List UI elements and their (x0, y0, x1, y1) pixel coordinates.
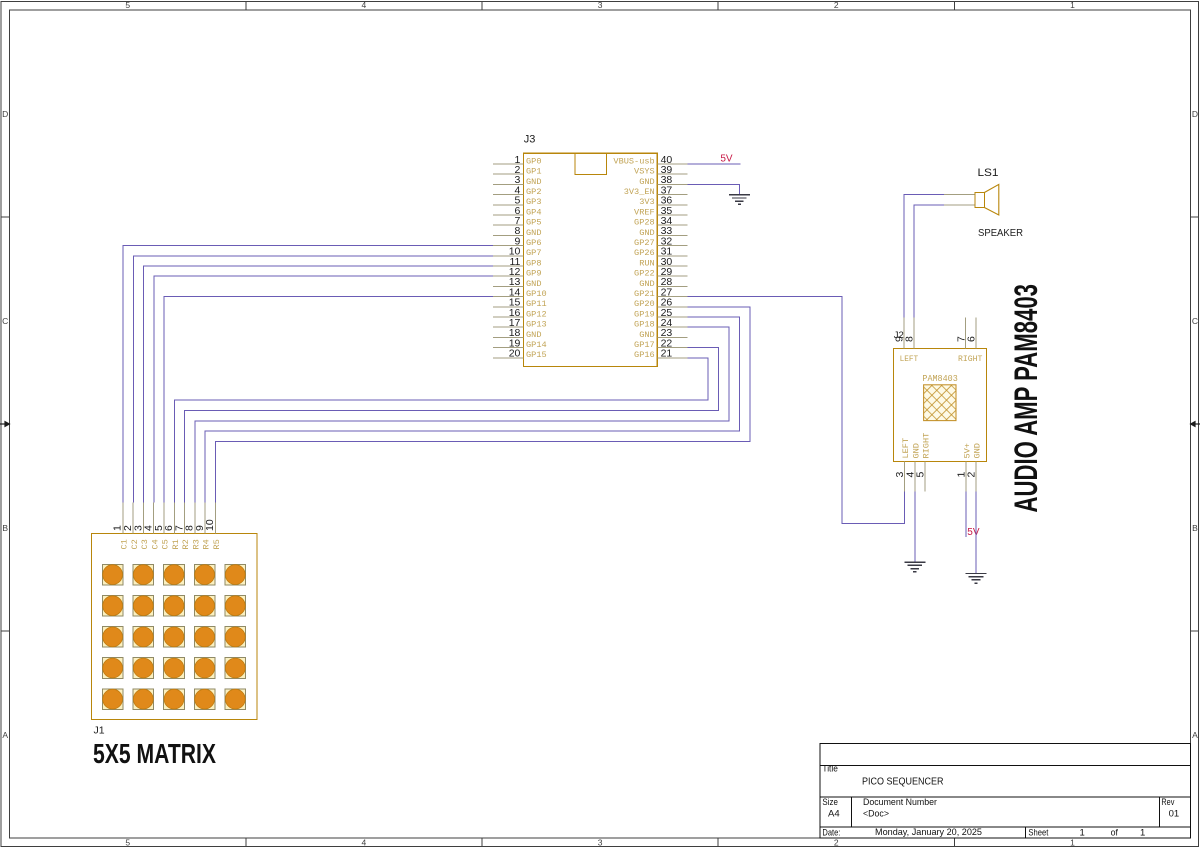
J2 pin 4 GND (904, 443, 921, 491)
svg-text:5: 5 (914, 472, 926, 478)
J1 pin 2 C2 (122, 502, 140, 549)
svg-text:C2: C2 (130, 539, 140, 549)
svg-text:C4: C4 (150, 539, 160, 549)
wire pin38 to ground (688, 184, 740, 194)
svg-text:5V: 5V (720, 153, 733, 164)
svg-text:1: 1 (1070, 837, 1075, 847)
svg-text:20: 20 (509, 348, 521, 360)
svg-text:C: C (1192, 316, 1198, 326)
svg-text:GP28: GP28 (634, 218, 655, 228)
svg-text:GND: GND (526, 177, 541, 187)
svg-text:GP26: GP26 (634, 248, 655, 258)
svg-text:R1: R1 (171, 539, 181, 549)
svg-text:01: 01 (1169, 808, 1180, 819)
wire amp pin9 to speaker top (904, 195, 944, 318)
svg-text:GND: GND (639, 177, 654, 187)
svg-text:Title: Title (822, 764, 838, 774)
svg-text:GND: GND (911, 443, 921, 458)
wire R3 to pico (195, 327, 729, 502)
J3 pin 38 GND (639, 174, 687, 187)
J3 pin 18 GND (493, 327, 542, 340)
svg-text:GND: GND (526, 279, 541, 289)
J3 pin 21 GP16 (634, 348, 688, 361)
svg-text:VREF: VREF (634, 207, 655, 217)
svg-text:GP11: GP11 (526, 299, 547, 309)
wire GP21 pin27 to amp LEFT input (688, 297, 905, 524)
wire 5V pin40 (688, 163, 741, 165)
svg-text:PAM8403: PAM8403 (922, 374, 957, 384)
svg-text:A4: A4 (828, 808, 840, 819)
svg-text:4: 4 (362, 0, 367, 10)
svg-text:6: 6 (966, 336, 978, 342)
svg-text:3V3: 3V3 (639, 197, 654, 207)
svg-text:GP27: GP27 (634, 238, 655, 248)
J3 pin 15 GP11 (493, 297, 547, 310)
J1 pin 9 R4 (194, 502, 212, 549)
svg-text:GP14: GP14 (526, 340, 547, 350)
svg-text:GP2: GP2 (526, 187, 541, 197)
svg-text:R4: R4 (202, 539, 212, 549)
svg-text:1: 1 (1080, 827, 1085, 838)
svg-text:A: A (1192, 730, 1198, 740)
J1 pin 6 R1 (163, 502, 181, 549)
svg-text:GND: GND (526, 330, 541, 340)
J3 pin 2 GP1 (493, 164, 542, 177)
J3 pin 28 GND (639, 276, 687, 289)
svg-text:GP9: GP9 (526, 269, 541, 279)
svg-text:GND: GND (639, 279, 654, 289)
J3 pin 5 GP3 (493, 195, 542, 208)
svg-text:GP5: GP5 (526, 218, 541, 228)
svg-text:5V: 5V (967, 527, 980, 538)
J2 pin 6 (966, 318, 978, 349)
J3 pin 12 GP9 (493, 266, 542, 279)
J3 pin 24 GP18 (634, 317, 688, 330)
svg-text:GND: GND (639, 228, 654, 238)
J3 pin 9 GP6 (493, 235, 542, 248)
speaker LS1 (944, 184, 999, 215)
J1 pin 1 C1 (112, 502, 130, 549)
wire amp pin8 to speaker bottom (914, 205, 944, 318)
svg-text:LEFT: LEFT (901, 438, 911, 459)
J3 pin 7 GP5 (493, 215, 542, 228)
svg-text:GP10: GP10 (526, 289, 547, 299)
svg-text:GP0: GP0 (526, 156, 541, 166)
svg-text:GP8: GP8 (526, 258, 541, 268)
wire amp pin1 5V (965, 491, 967, 537)
J3 pin 29 GP22 (634, 266, 688, 279)
J3 pin 39 VSYS (634, 164, 688, 177)
svg-text:J3: J3 (524, 134, 536, 146)
svg-text:LEFT: LEFT (900, 354, 919, 364)
svg-text:J1: J1 (94, 725, 105, 737)
svg-text:GP20: GP20 (634, 299, 655, 309)
J2 pin 8 (904, 318, 916, 349)
J2 pin 9 (894, 318, 906, 349)
svg-text:SPEAKER: SPEAKER (978, 227, 1023, 239)
svg-text:PICO SEQUENCER: PICO SEQUENCER (862, 777, 944, 788)
wire C3 to GP8 (144, 266, 493, 502)
svg-text:8: 8 (904, 336, 916, 342)
svg-text:LS1: LS1 (978, 167, 999, 179)
svg-text:C3: C3 (140, 539, 150, 549)
J2 pin 5 RIGHT (914, 433, 931, 492)
J3 pin 16 GP12 (493, 307, 547, 320)
svg-text:GP6: GP6 (526, 238, 541, 248)
J3 pin 23 GND (639, 327, 687, 340)
J3 pin 36 3V3 (639, 195, 687, 208)
J3 pin 31 GP26 (634, 246, 688, 259)
svg-text:5: 5 (125, 837, 130, 847)
svg-text:Size: Size (822, 797, 838, 807)
J3 pin 25 GP19 (634, 307, 688, 320)
J3 pin 32 GP27 (634, 235, 688, 248)
svg-text:GP12: GP12 (526, 309, 547, 319)
J2 pin 1 5V+ (955, 443, 972, 491)
svg-text:GP19: GP19 (634, 309, 655, 319)
svg-text:Rev: Rev (1161, 797, 1174, 807)
J3 pin 34 GP28 (634, 215, 688, 228)
J1 pin 10 R5 (204, 502, 222, 549)
svg-text:GP15: GP15 (526, 350, 547, 360)
svg-text:GND: GND (526, 228, 541, 238)
J3 pin 33 GND (639, 225, 687, 238)
svg-text:21: 21 (661, 348, 673, 360)
svg-text:2: 2 (834, 0, 839, 10)
svg-text:GND: GND (973, 443, 983, 458)
ground symbol near pico (729, 195, 750, 205)
svg-text:AUDIO AMP PAM8403: AUDIO AMP PAM8403 (1008, 284, 1044, 513)
svg-text:C: C (2, 316, 8, 326)
svg-text:D: D (1192, 109, 1198, 119)
svg-text:2: 2 (834, 837, 839, 847)
svg-text:<Doc>: <Doc> (863, 809, 889, 820)
svg-text:A: A (2, 730, 8, 740)
wire amp pin4 to ground (914, 491, 916, 561)
J3 pin 13 GND (493, 276, 542, 289)
svg-text:GP1: GP1 (526, 167, 541, 177)
svg-text:GP13: GP13 (526, 320, 547, 330)
svg-text:Monday, January 20, 2025: Monday, January 20, 2025 (875, 827, 982, 838)
svg-text:GP4: GP4 (526, 207, 541, 217)
wire amp pin2 to ground (975, 491, 977, 573)
connector J3 Raspberry Pi Pico body (523, 134, 657, 367)
J3 pin 26 GP20 (634, 297, 688, 310)
svg-text:GP18: GP18 (634, 320, 655, 330)
wire C2 to GP7 (133, 256, 493, 503)
ground symbol amp pin2 (966, 574, 987, 584)
J3 pin 20 GP15 (493, 348, 547, 361)
J3 pin 27 GP21 (634, 286, 688, 299)
svg-text:5X5 MATRIX: 5X5 MATRIX (93, 738, 216, 769)
J2 crosshatch block (924, 385, 956, 421)
svg-text:GND: GND (639, 330, 654, 340)
svg-text:B: B (2, 523, 8, 533)
J3 pin 11 GP8 (493, 256, 542, 269)
J3 pin 14 GP10 (493, 286, 547, 299)
J3 pin 10 GP7 (493, 246, 542, 259)
J1 LED pad grid (102, 564, 245, 709)
svg-text:GP21: GP21 (634, 289, 655, 299)
svg-text:RIGHT: RIGHT (958, 354, 982, 364)
svg-text:C1: C1 (120, 539, 130, 549)
svg-text:VSYS: VSYS (634, 167, 655, 177)
ground symbol amp pin4 (904, 562, 925, 572)
J3 pin 17 GP13 (493, 317, 547, 330)
svg-text:GP22: GP22 (634, 269, 655, 279)
svg-text:R5: R5 (212, 539, 222, 549)
svg-text:2: 2 (966, 472, 978, 478)
svg-text:3: 3 (598, 0, 603, 10)
wire R2 to pico (185, 348, 719, 503)
J3 pin 22 GP17 (634, 337, 688, 350)
svg-text:D: D (2, 109, 8, 119)
connector J1 5x5 matrix body (91, 534, 257, 720)
svg-text:5V+: 5V+ (962, 443, 972, 458)
J2 pin 2 GND (966, 443, 983, 491)
J2 pin 7 (955, 318, 967, 349)
J3 pin 8 GND (493, 225, 542, 238)
svg-text:R2: R2 (181, 539, 191, 549)
svg-text:Document Number: Document Number (863, 797, 937, 807)
J1 pin 5 C5 (153, 502, 171, 549)
svg-text:VBUS-usb: VBUS-usb (613, 156, 654, 166)
wire R4 to pico (205, 317, 739, 502)
svg-text:GP3: GP3 (526, 197, 541, 207)
J2 pin 3 LEFT (894, 438, 911, 492)
svg-text:5: 5 (125, 0, 130, 10)
frame mid arrow left (0, 421, 1200, 428)
svg-text:B: B (1192, 523, 1198, 533)
title block (820, 743, 1191, 838)
svg-text:GP7: GP7 (526, 248, 541, 258)
wire R5 to pico (215, 307, 750, 503)
J3 pin 30 RUN (639, 256, 687, 269)
J1 pin 7 R2 (173, 502, 191, 549)
wire C5 to GP10 (164, 297, 493, 503)
svg-text:1: 1 (1140, 827, 1145, 838)
svg-text:10: 10 (204, 519, 216, 531)
svg-text:3V3_EN: 3V3_EN (624, 187, 655, 197)
audio amp J2 PAM8403 body (894, 349, 987, 462)
J3 pin 40 VBUS-usb (613, 154, 687, 167)
J3 pin 35 VREF (634, 205, 688, 218)
svg-text:Date:: Date: (822, 827, 840, 837)
svg-text:GP17: GP17 (634, 340, 655, 350)
wire C4 to GP9 (154, 276, 493, 502)
wire C1 to GP6 (123, 246, 493, 503)
svg-text:RIGHT: RIGHT (921, 433, 931, 459)
svg-text:Sheet: Sheet (1028, 827, 1048, 837)
J1 pin 3 C3 (132, 502, 150, 549)
J1 pin 8 R3 (184, 502, 202, 549)
J3 pin 4 GP2 (493, 184, 542, 197)
J3 pin 3 GND (493, 174, 542, 187)
svg-text:RUN: RUN (639, 258, 654, 268)
svg-text:R3: R3 (191, 539, 201, 549)
svg-text:of: of (1111, 827, 1119, 837)
J3 pin 37 3V3_EN (624, 184, 688, 197)
wire R1 to pico (174, 358, 708, 503)
J3 pin 6 GP4 (493, 205, 542, 218)
svg-text:4: 4 (362, 837, 367, 847)
frame mid arrow right (1195, 423, 1200, 425)
J1 pin 4 C4 (143, 502, 161, 549)
svg-text:C5: C5 (161, 539, 171, 549)
J3 pin 1 GP0 (493, 154, 542, 167)
J3 pin 19 GP14 (493, 337, 547, 350)
svg-text:GP16: GP16 (634, 350, 655, 360)
svg-text:3: 3 (598, 837, 603, 847)
svg-text:1: 1 (1070, 0, 1075, 10)
